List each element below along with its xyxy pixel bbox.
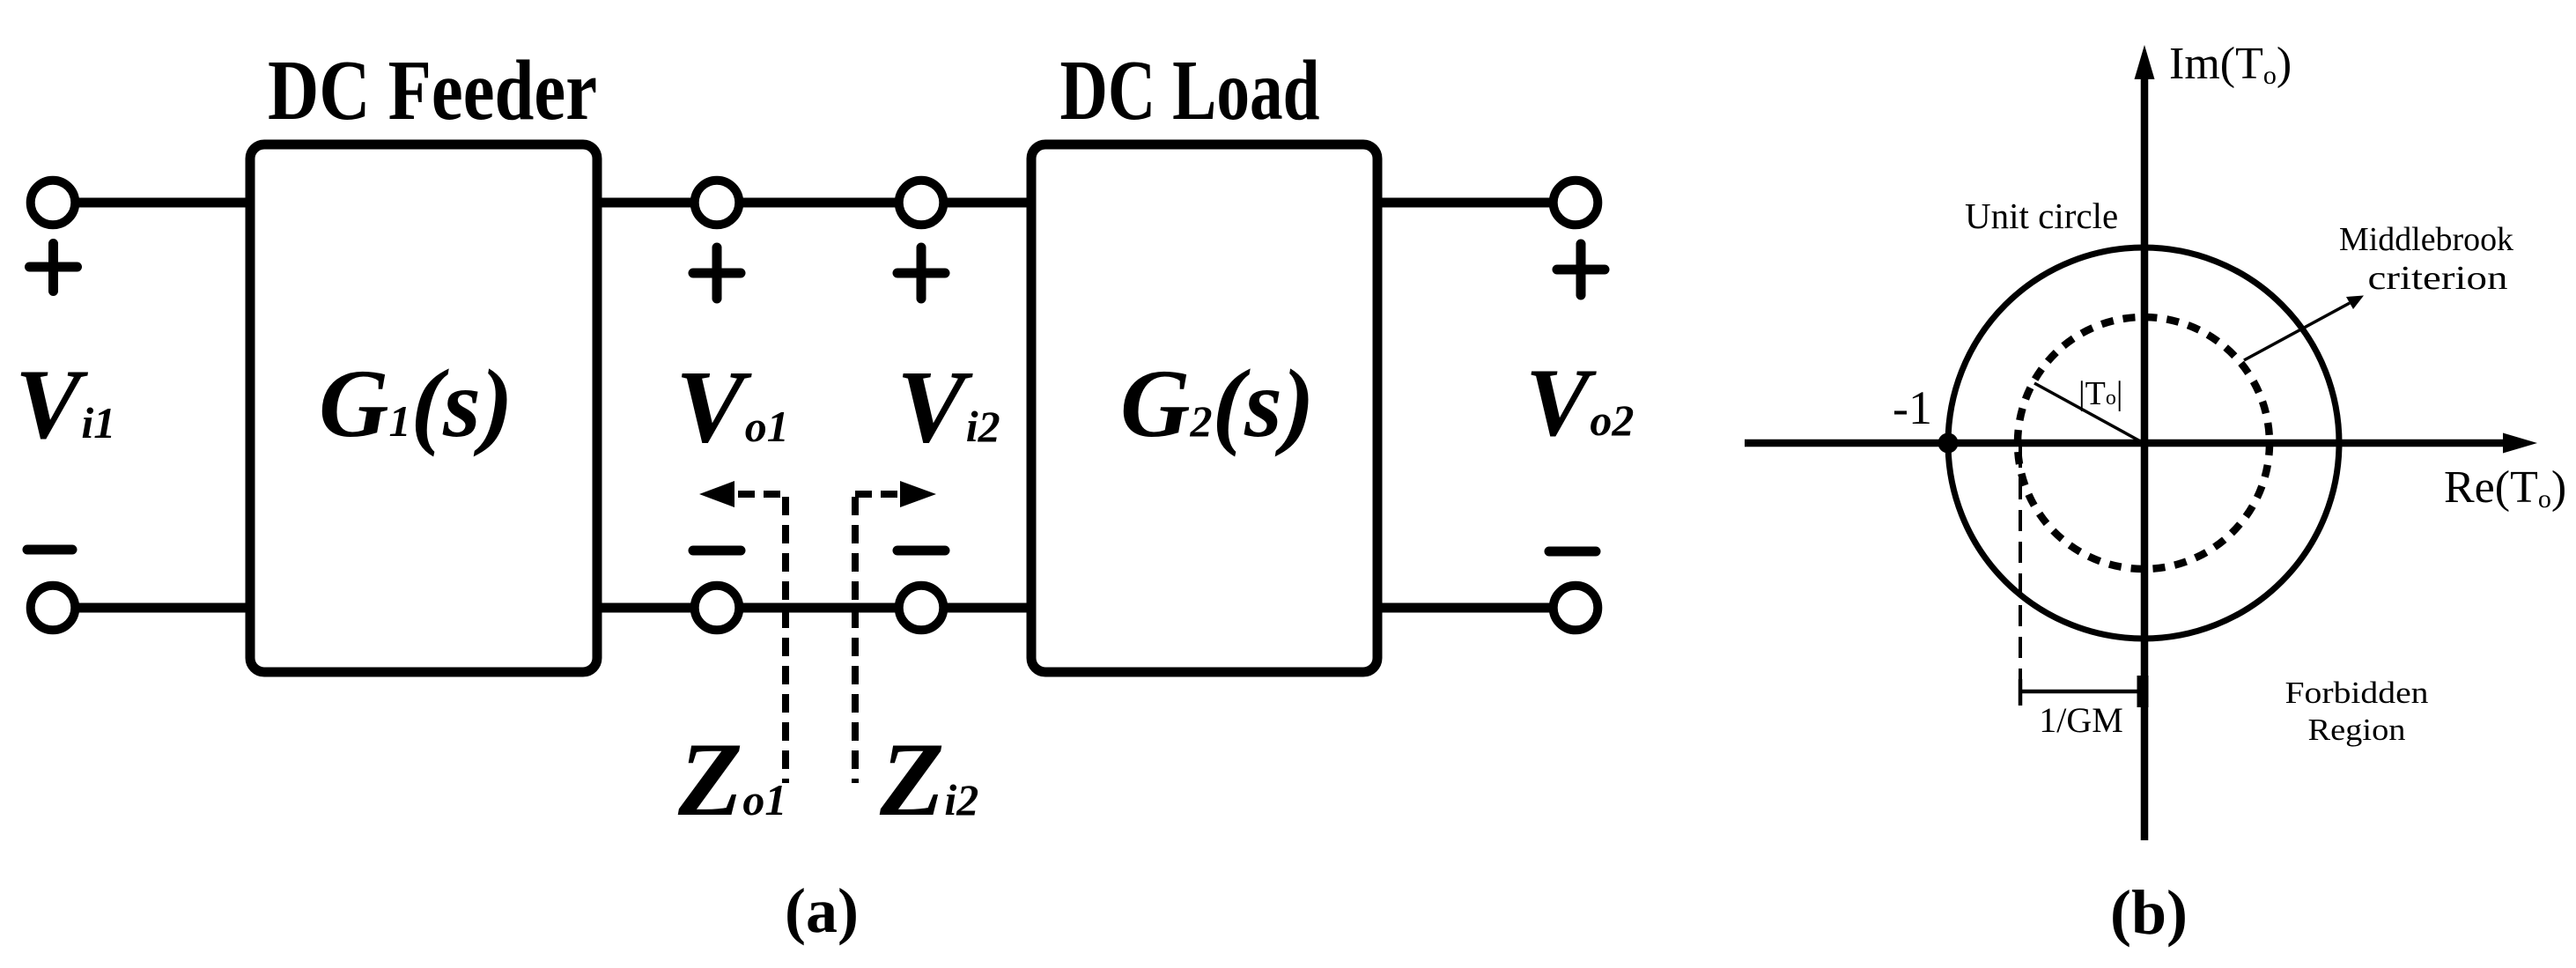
svg-text:criterion: criterion [2368,260,2508,297]
svg-text:Middlebrook: Middlebrook [2339,221,2513,258]
svg-text:Vo2: Vo2 [1525,349,1634,456]
svg-text:Vi1: Vi1 [15,350,115,460]
svg-text:Vi2: Vi2 [897,349,1000,464]
svg-text:(b): (b) [2110,877,2188,948]
svg-text:Vo1: Vo1 [675,349,789,464]
svg-text:Unit circle: Unit circle [1965,196,2118,236]
svg-text:G1(s): G1(s) [319,350,513,457]
svg-text:Zi2: Zi2 [879,720,978,838]
svg-text:DC Load: DC Load [1060,43,1320,137]
svg-text:G2(s): G2(s) [1120,350,1315,457]
svg-text:Re(To): Re(To) [2444,462,2566,514]
svg-text:|To|: |To| [2078,375,2122,412]
svg-text:Forbidden: Forbidden [2285,676,2429,710]
svg-text:1/GM: 1/GM [2039,700,2123,740]
svg-text:DC Feeder: DC Feeder [268,43,597,137]
svg-text:Zo1: Zo1 [677,720,786,838]
svg-text:Im(To): Im(To) [2169,39,2292,90]
svg-text:(a): (a) [785,876,859,946]
svg-text:-1: -1 [1893,381,1932,434]
svg-text:Region: Region [2308,713,2406,747]
